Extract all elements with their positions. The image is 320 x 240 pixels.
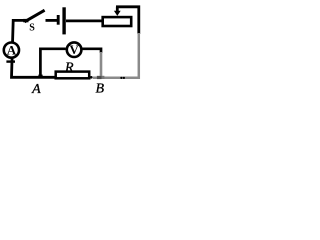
- wire: switch to battery: [46, 19, 58, 22]
- rheostat slider stem: [116, 7, 119, 12]
- voltmeter loop left: leg and top wire: [40, 49, 65, 78]
- switch S blade: [25, 10, 45, 22]
- ammeter A circle: [4, 43, 19, 58]
- rheostat body box: [103, 17, 132, 26]
- wire stub right of resistor with dot: [90, 76, 93, 79]
- node A junction blob: [38, 75, 42, 79]
- battery long plate: [62, 7, 65, 34]
- wire: right side lower (gray) and bottom-right (gray): [93, 33, 139, 78]
- node B junction blob (gray): [97, 76, 105, 79]
- svg-text:S: S: [29, 22, 35, 33]
- voltmeter right leg (gray): [100, 52, 103, 78]
- voltmeter loop right: top wire and corner: [82, 49, 101, 53]
- switch pivot nub: [23, 19, 28, 22]
- junction dots on bottom gray wire: [120, 77, 122, 79]
- rheostat slider arrowhead: [114, 11, 121, 16]
- svg-text:R: R: [64, 60, 74, 75]
- battery short plate: [57, 15, 60, 25]
- wire: top-left corner, left wire, bottom-left wire: [12, 20, 57, 77]
- svg-text:A: A: [31, 82, 41, 97]
- resistor R box: [56, 72, 89, 79]
- voltmeter V circle: [67, 42, 82, 57]
- wire: battery to rheostat: [66, 19, 103, 22]
- svg-text:B: B: [96, 81, 105, 96]
- svg-text:A: A: [7, 42, 17, 57]
- svg-text:V: V: [69, 42, 79, 57]
- wire: slider to top-right corner: [116, 7, 139, 34]
- tick below ammeter: [6, 60, 15, 62]
